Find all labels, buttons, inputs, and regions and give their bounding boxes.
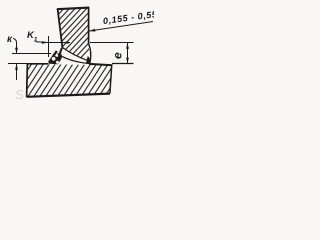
K1 extension line (48, 36, 50, 57)
background paper (0, 0, 154, 103)
K1 arrow left-pointing (63, 41, 69, 44)
e bottom extension line (112, 63, 134, 65)
gap leader line (89, 22, 153, 32)
e dimension line (127, 43, 129, 63)
k down arrow (15, 48, 18, 54)
weld right prong (59, 48, 62, 57)
dimension k leader bend (13, 39, 17, 45)
weld right dark fill (86, 56, 90, 64)
lower plate top edge extension (thin, to left) (8, 63, 48, 65)
dimension k line upper (16, 43, 18, 53)
gap leader left arrow (89, 29, 96, 32)
e top extension line (90, 42, 134, 44)
upper plate hatching (1, 0, 152, 70)
upper plate top edge (57, 8, 90, 10)
weld right bulge (89, 44, 91, 64)
upper plate left edge (58, 9, 63, 48)
upper plate right edge (88, 8, 90, 44)
weld fusion curve lower (58, 54, 91, 64)
weld nugget blob base (48, 53, 62, 64)
weld pinhole 2 (56, 61, 59, 64)
lower plate right edge (110, 66, 112, 94)
svg-text:e: e (111, 52, 125, 59)
e arrow up (126, 43, 129, 49)
weld pinhole 1 (52, 57, 56, 61)
k upper extension line (12, 53, 51, 55)
svg-text:S: S (15, 87, 24, 102)
lower plate left edge (26, 64, 29, 97)
svg-text:1: 1 (34, 37, 38, 44)
K1 arrow right-pointing (42, 41, 48, 44)
dimension K1 line (36, 41, 70, 44)
k up arrow (15, 64, 18, 70)
lower plate top edge left part (28, 63, 49, 65)
dimension k line lower (16, 64, 18, 80)
lower plate bottom edge (27, 94, 110, 97)
lower plate hatching (2, 62, 127, 100)
lower plate top edge right part (89, 64, 113, 65)
weld fusion curve upper (62, 47, 89, 61)
e arrow down (126, 58, 129, 64)
weld left prong (49, 51, 57, 63)
